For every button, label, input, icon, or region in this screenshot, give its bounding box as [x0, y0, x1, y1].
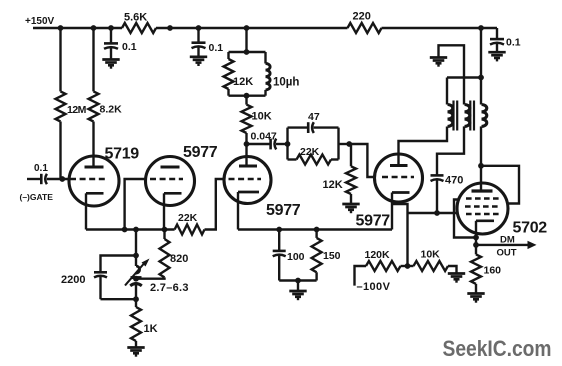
wire V5 suppressor tie	[454, 200, 476, 238]
svg-text:(–)GATE: (–)GATE	[20, 192, 54, 202]
node junction rail/12M	[58, 25, 64, 31]
svg-text:0.047: 0.047	[251, 131, 277, 143]
wire +150V rail left segment	[33, 27, 122, 29]
transformer winding W1 (V4 plate choke)	[446, 78, 448, 105]
capacitor C 0.1 input coupling	[27, 178, 40, 180]
svg-text:2200: 2200	[61, 274, 85, 286]
svg-text:SeekIC.com: SeekIC.com	[443, 336, 552, 361]
wire V5 cathode drop	[475, 221, 477, 255]
wire V3 plate lead	[245, 144, 247, 166]
resistor 12K (V4 grid leak)	[350, 144, 352, 166]
resistor 1K (bias)	[135, 299, 137, 307]
svg-text:22K: 22K	[300, 146, 320, 158]
capacitor C 0.1 third bypass	[496, 28, 498, 39]
wire +150V rail middle segment	[156, 27, 348, 29]
svg-text:5702: 5702	[513, 220, 548, 237]
transformer core right pair	[469, 101, 471, 131]
wire bus to V3 grid riser	[205, 179, 225, 230]
node junction bus/150	[314, 227, 320, 233]
node junction rail/C-0.1 first	[108, 25, 114, 31]
wire V5 plate lead	[480, 166, 482, 191]
wire 100/150 bottom bar	[279, 279, 316, 281]
node junction cathode/output	[473, 242, 479, 248]
node junction 22K/12K/V4 grid	[346, 141, 352, 147]
wire cathode bus right	[238, 228, 392, 230]
node junction bus/trimmer branch	[133, 227, 139, 233]
svg-text:5977: 5977	[266, 202, 301, 219]
capacitor C 0.1 first bypass	[110, 28, 112, 44]
wire tank bottom bar	[229, 94, 266, 96]
node junction ground bar	[295, 278, 301, 284]
node junction bus/V2 grid	[122, 227, 128, 233]
ground below 100/150	[289, 290, 306, 293]
node DM OUT output arrow	[476, 244, 530, 246]
wire V5 screen loop	[481, 166, 519, 204]
svg-text:–100V: –100V	[357, 281, 391, 293]
node junction divider/V4 cathode	[405, 263, 411, 269]
svg-text:+150V: +150V	[25, 16, 55, 27]
svg-text:220: 220	[353, 11, 371, 23]
tube V5 5702 pentode	[457, 183, 508, 234]
svg-text:100: 100	[287, 251, 305, 263]
node junction V3 plate	[244, 141, 250, 147]
capacitor C 0.1 second bypass	[197, 28, 199, 43]
node junction rail/V2 plate	[167, 25, 173, 31]
ground above transformer W2	[430, 56, 447, 59]
resistor 22K (cathode bus)	[175, 225, 205, 235]
svg-text:8.2K: 8.2K	[100, 104, 123, 116]
node junction 0.047/parallel box left	[285, 141, 291, 147]
ground below 1K	[127, 346, 144, 349]
capacitor 470 (coupling to V5 grid)	[431, 174, 444, 177]
svg-text:47: 47	[308, 111, 320, 123]
wire V5 grid bus	[408, 212, 458, 214]
wire V2 grid to cathode bus	[125, 179, 146, 230]
svg-text:22K: 22K	[178, 212, 198, 224]
wire V1 cathode drop	[85, 193, 87, 229]
svg-text:12K: 12K	[323, 179, 343, 191]
svg-text:470: 470	[445, 175, 463, 187]
resistor 12K (tank)	[227, 52, 229, 59]
node junction rail/transformer	[478, 25, 484, 31]
svg-text:1K: 1K	[144, 323, 158, 335]
capacitor 100 (cathode bypass)	[278, 230, 280, 251]
svg-text:10K: 10K	[421, 249, 441, 261]
node junction bus/100	[276, 227, 282, 233]
resistor 220 (in +150V rail)	[348, 23, 382, 33]
resistor 120K (to -100V)	[355, 266, 367, 286]
node junction 2200/1K	[133, 296, 139, 302]
svg-text:5719: 5719	[105, 146, 140, 163]
svg-text:DM: DM	[500, 235, 515, 246]
svg-text:12M: 12M	[67, 104, 87, 116]
wire trimmer branch vertical	[135, 230, 137, 256]
svg-text:0.1: 0.1	[506, 37, 521, 49]
wire V4 cathode to divider	[392, 204, 408, 266]
svg-text:0.1: 0.1	[34, 163, 48, 174]
node junction 820/trimmer	[133, 276, 139, 282]
node junction rail-drop/W1 feed	[478, 75, 484, 81]
svg-text:12K: 12K	[233, 76, 253, 88]
wire W1 top feed	[447, 76, 481, 78]
node junction tank bottom	[244, 93, 250, 99]
tube V3 5977 triode	[224, 157, 271, 204]
node junction V5 plate/screen	[478, 163, 484, 169]
transformer winding W2 (grounded winding)	[439, 45, 465, 104]
node junction rail/C-0.1 second	[196, 25, 202, 31]
capacitor trimmer 2.7-6.3 variable	[135, 256, 137, 267]
wire V2 cathode drop	[163, 193, 165, 229]
resistor 22K (parallel)	[337, 128, 339, 160]
wire V4 cathode drop	[391, 193, 393, 230]
svg-text:OUT: OUT	[497, 248, 517, 259]
tube V4 5977 triode	[375, 154, 423, 202]
wire box right to grid node	[339, 143, 350, 145]
resistor 160 (V5 cathode)	[471, 254, 481, 284]
svg-text:0.1: 0.1	[122, 41, 137, 53]
transformer winding W3 (to V5 plate)	[480, 28, 482, 105]
wire +150V rail right segment	[382, 27, 498, 29]
svg-text:820: 820	[170, 253, 188, 265]
node junction trimmer top	[133, 253, 139, 259]
resistor 150 (cathode)	[315, 230, 317, 238]
node junction 470/grid bus	[434, 210, 440, 216]
node junction rail/tank	[244, 25, 250, 31]
wire to V4 grid	[349, 144, 376, 177]
transformer core left pair	[452, 101, 454, 131]
svg-text:5977: 5977	[356, 213, 391, 230]
svg-text:10K: 10K	[252, 111, 272, 123]
resistor 820 (V2 cathode)	[163, 230, 165, 240]
svg-text:5.6K: 5.6K	[124, 12, 147, 24]
node junction rail/8.2K	[91, 25, 97, 31]
svg-text:120K: 120K	[365, 249, 391, 261]
ground below first 0.1 cap	[102, 58, 119, 61]
svg-text:0.1: 0.1	[209, 42, 224, 54]
ground below second 0.1 cap	[190, 55, 207, 58]
capacitor 47 (parallel peaking)	[286, 128, 288, 160]
tube V2 5977 triode	[146, 157, 195, 206]
svg-text:10µh: 10µh	[273, 77, 299, 89]
capacitor 0.047 coupling	[247, 143, 271, 145]
resistor 5.6K (plate decoupling, in +150V rail)	[122, 23, 156, 33]
resistor 8.2K (V1 plate load)	[92, 28, 94, 91]
wire rail to tank	[245, 28, 247, 52]
node junction cathode/suppressor	[473, 235, 479, 241]
resistor 10K (V3 plate load)	[245, 96, 247, 105]
wire V3 cathode drop	[237, 192, 239, 230]
svg-text:150: 150	[323, 250, 341, 262]
inductor 10uH (tank)	[264, 52, 266, 64]
ground below 160	[467, 292, 484, 295]
wire tank top bar	[229, 51, 266, 53]
tube V1 5719 triode	[69, 156, 119, 206]
node junction input/12M	[59, 176, 65, 182]
ground below divider 10K	[448, 272, 465, 275]
capacitor 2200 (cathode bypass)	[101, 256, 137, 272]
svg-text:5977: 5977	[183, 144, 218, 161]
resistor 10K (divider)	[408, 265, 414, 267]
svg-text:2.7–6.3: 2.7–6.3	[150, 282, 189, 294]
ground below third 0.1 cap	[488, 51, 505, 54]
svg-text:160: 160	[484, 265, 502, 277]
resistor 12M (grid resistor)	[59, 28, 61, 91]
arrow trimmer adjustment	[125, 264, 144, 286]
node junction tank top	[244, 49, 250, 55]
wire ground stem	[297, 281, 299, 292]
node junction bus/820	[162, 227, 168, 233]
ground below 12K grid leak	[342, 203, 359, 206]
wire V4 plate to transformer	[399, 127, 448, 166]
wire cathode bus left	[86, 228, 175, 230]
